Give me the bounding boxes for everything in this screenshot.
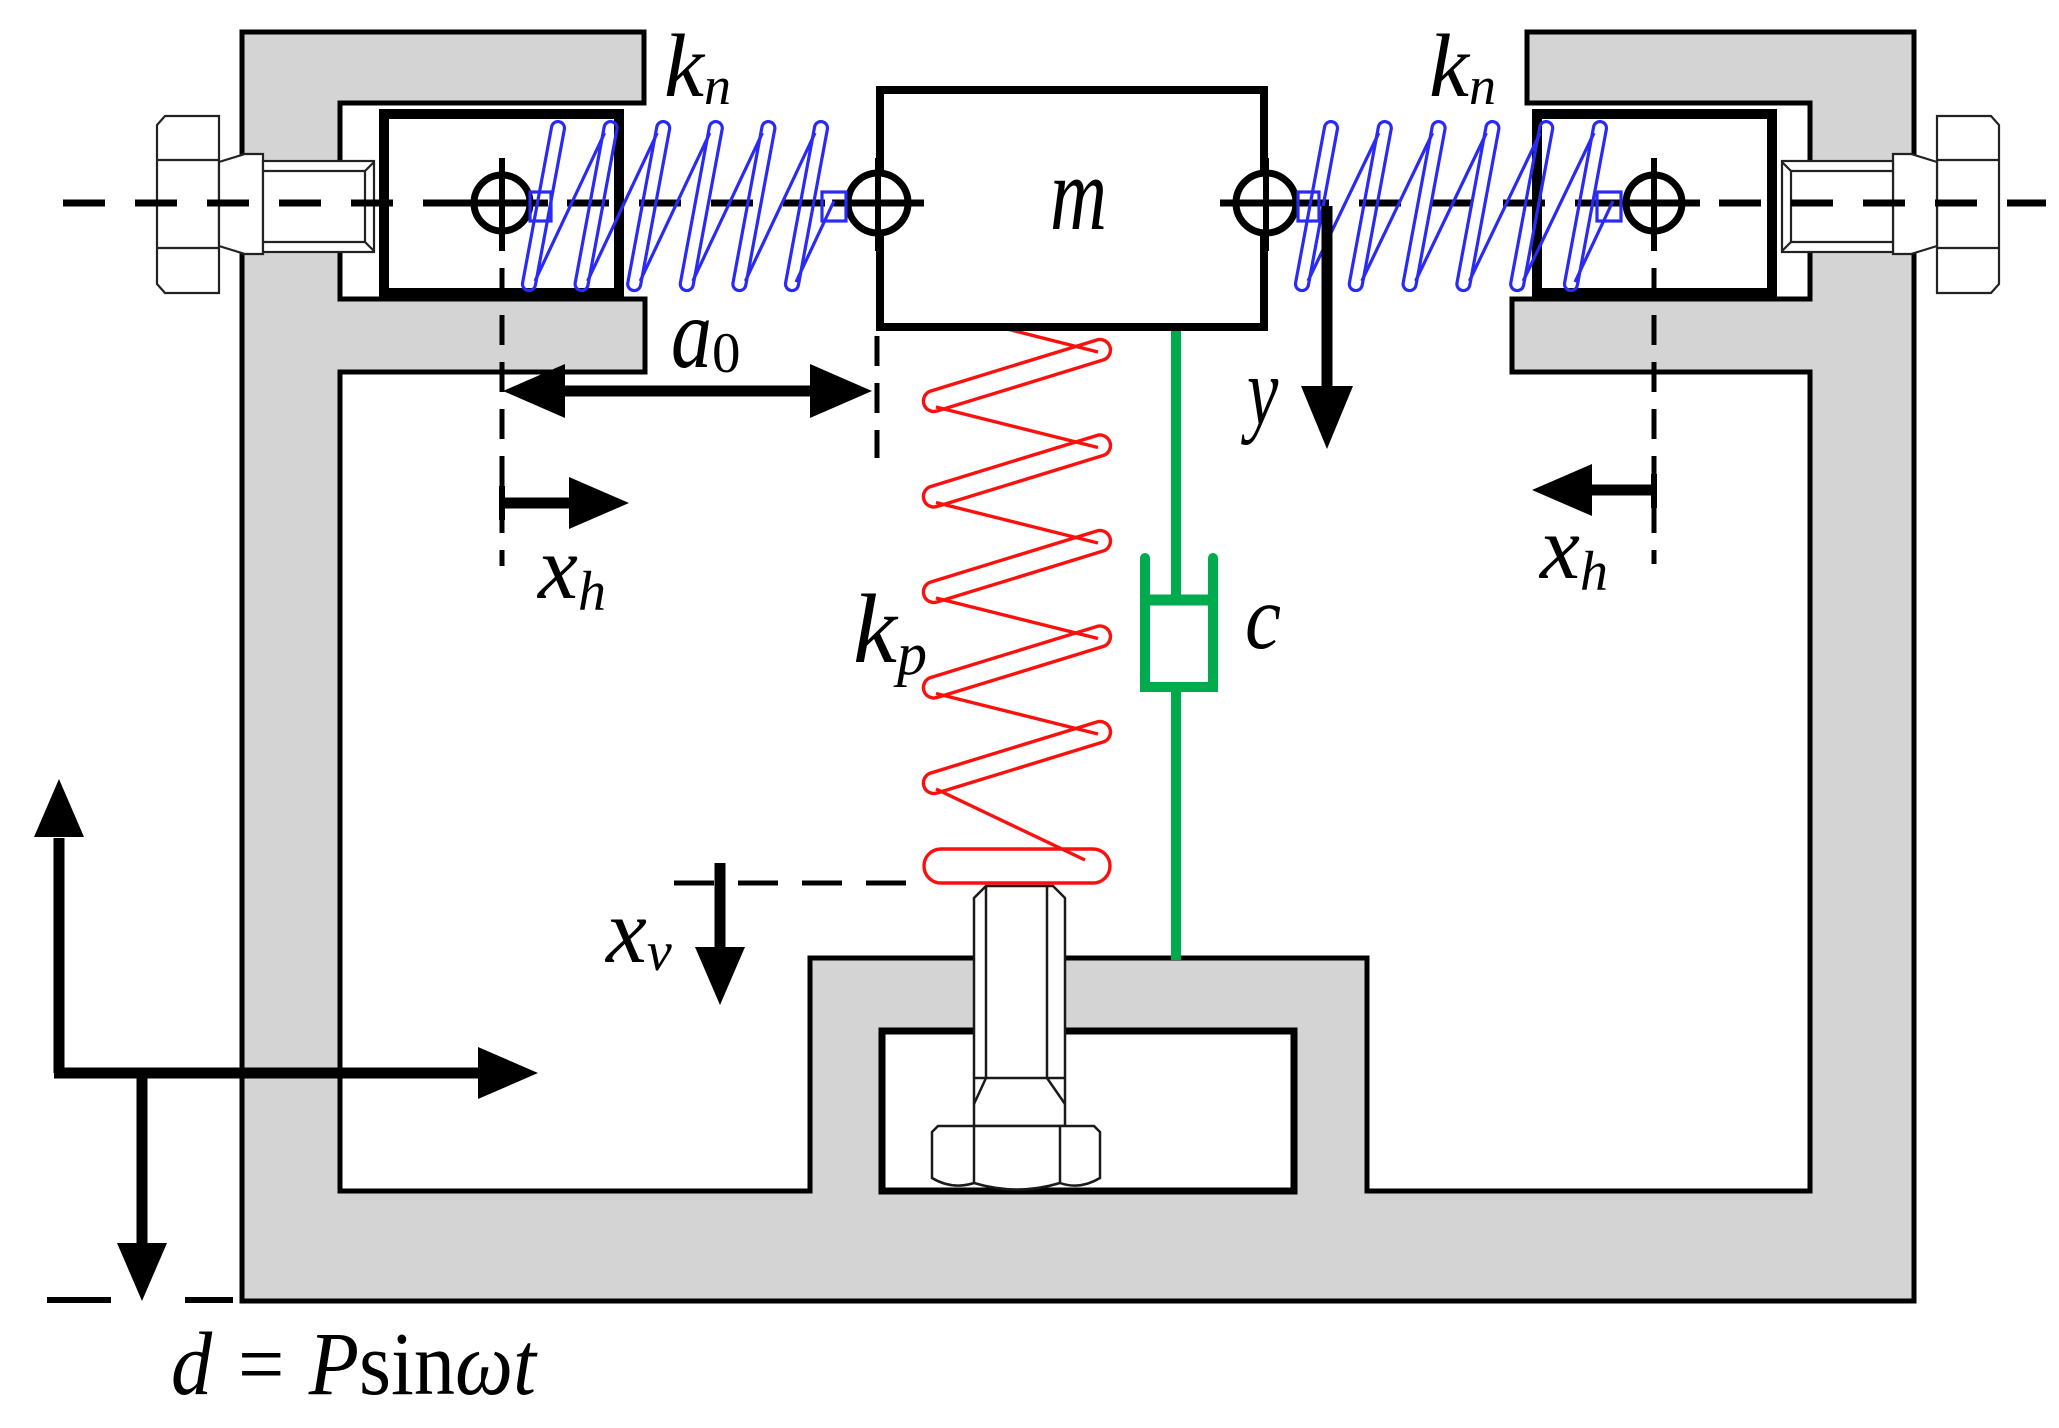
label y: [1240, 338, 1278, 446]
hex nut N1: [932, 1126, 1100, 1190]
right slider pivot: [1626, 175, 1682, 231]
xv arrow: [715, 863, 726, 949]
excitation up arrow: [54, 838, 65, 1073]
horizontal centerline: [63, 200, 2046, 207]
mass-edge vertical dashed line: [875, 336, 880, 458]
vertical adjustment bolt B3 (center bottom): [932, 886, 1100, 1190]
y arrow: [1322, 206, 1333, 388]
right slider block: [1537, 114, 1772, 293]
xh left arrow: [499, 486, 505, 520]
left preload bolt B1: [157, 116, 374, 293]
svg-text:c: c: [1245, 567, 1281, 668]
svg-text:m: m: [1050, 135, 1107, 252]
xh right arrow: [1651, 474, 1657, 508]
left slider block: [384, 114, 619, 293]
vertical spring kp: [921, 312, 1113, 883]
a0 dimension arrow: [558, 386, 817, 397]
mass m: [880, 90, 1264, 327]
left slider pivot: [474, 175, 530, 231]
mass left pivot: [848, 173, 908, 233]
right preload bolt B2: [1782, 116, 1999, 293]
xv reference dashed line: [674, 881, 906, 886]
right horizontal spring kn: [1294, 120, 1621, 291]
excitation right arrow: [54, 1068, 480, 1079]
base reference dashed line: [47, 1297, 111, 1303]
damper c (green dashpot): [1141, 328, 1213, 960]
frame (gray fixed base/enclosure): [242, 32, 1914, 1301]
pedestal cavity (nut recess): [882, 1031, 1294, 1191]
left pivot vertical dashed line: [500, 251, 505, 566]
mass right pivot: [1236, 173, 1296, 233]
excitation down arrow: [137, 1068, 148, 1244]
svg-text:d = Psinωt: d = Psinωt: [171, 1315, 538, 1414]
left horizontal spring kn: [521, 120, 846, 291]
right pivot vertical dashed line: [1652, 251, 1657, 564]
